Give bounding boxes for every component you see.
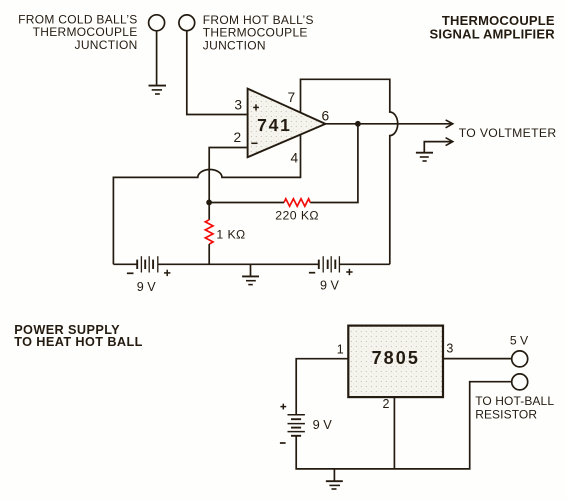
battery B1 plus sign: [164, 270, 170, 276]
op-amp U1 741: [248, 89, 326, 158]
svg-text:9 V: 9 V: [137, 280, 157, 294]
wire pin 2 down to ground rail: [393, 397, 395, 469]
node: feedback junction dot: [206, 200, 212, 206]
svg-text:3: 3: [446, 342, 453, 356]
wire 220K left lead to feedback node: [209, 202, 284, 204]
svg-text:9 V: 9 V: [320, 279, 340, 293]
svg-text:RESISTOR: RESISTOR: [475, 408, 537, 422]
terminal J1 (cold ball input): [149, 15, 165, 31]
svg-text:220 KΩ: 220 KΩ: [275, 208, 319, 222]
ground (battery rail): [242, 264, 259, 284]
title: THERMOCOUPLE SIGNAL AMPLIFIER: [430, 13, 556, 41]
wire pin 7 to V+ rail, hops over output wire, down to battery rail: [301, 79, 398, 264]
wire pin 1 to battery B3 plus: [296, 359, 348, 415]
wire battery rail center segment: [158, 263, 319, 265]
battery B2 9V (right): [319, 256, 340, 272]
battery B3 9V (vertical): [288, 415, 305, 436]
terminal J3 (5V output): [512, 351, 528, 367]
svg-text:TO HOT-BALL: TO HOT-BALL: [475, 394, 554, 408]
label: TO HOT-BALL RESISTOR: [475, 394, 554, 422]
svg-text:6: 6: [321, 108, 329, 123]
svg-text:5 V: 5 V: [510, 334, 529, 348]
svg-text:741: 741: [257, 115, 292, 135]
wire voltmeter return lead: [424, 142, 452, 153]
terminal J2 (hot ball input): [179, 15, 195, 31]
op-amp plus input marking: [253, 104, 259, 110]
wire output junction down to feedback resistor: [310, 124, 358, 203]
ground (cold-ball junction): [149, 86, 167, 94]
wire pin 4 down, left (hops over pin-2 wire), down to left battery minus: [113, 135, 300, 265]
svg-text:TO HEAT HOT BALL: TO HEAT HOT BALL: [14, 335, 143, 349]
wire battery rail right segment to V+ drop: [339, 263, 389, 265]
op-amp minus input marking: [251, 142, 257, 144]
svg-text:4: 4: [291, 151, 299, 166]
resistor R1 220 K-ohm (zigzag): [284, 199, 310, 207]
ground (power supply): [326, 469, 343, 489]
label: FROM HOT BALL'S THERMOCOUPLE JUNCTION: [203, 13, 314, 52]
svg-text:SIGNAL AMPLIFIER: SIGNAL AMPLIFIER: [430, 26, 556, 41]
svg-text:JUNCTION: JUNCTION: [75, 38, 138, 52]
wire battery rail left segment: [113, 263, 136, 265]
wire pin 2 to feedback node: [209, 148, 247, 203]
resistor R2 1 K-ohm (vertical zigzag): [205, 220, 213, 244]
arrowhead to voltmeter (signal): [446, 120, 453, 128]
terminal J4 (to hot-ball resistor): [512, 374, 528, 390]
battery B2 minus sign: [309, 272, 315, 274]
svg-text:3: 3: [234, 97, 242, 112]
node: output junction: [355, 121, 361, 127]
svg-text:7: 7: [288, 90, 296, 105]
wire battery B3 minus to ground rail, right and up to hot-ball terminal: [296, 382, 512, 469]
svg-text:9 V: 9 V: [313, 417, 333, 432]
ground (voltmeter return): [416, 153, 433, 161]
svg-text:1 KΩ: 1 KΩ: [216, 227, 245, 241]
wire feedback node down to R2: [208, 203, 210, 220]
label: FROM COLD BALL'S THERMOCOUPLE JUNCTION: [18, 12, 138, 52]
wire R2 bottom lead to battery rail: [208, 244, 210, 264]
regulator U2 7805 box: [348, 326, 443, 398]
battery B1 9V (left): [137, 256, 158, 272]
wire pin 3 to 5V terminal: [443, 358, 512, 360]
svg-text:7805: 7805: [372, 348, 420, 368]
svg-text:JUNCTION: JUNCTION: [203, 38, 266, 52]
battery B1 minus sign: [127, 272, 134, 274]
svg-text:1: 1: [337, 343, 344, 357]
wire J2 to op-amp pin 3: [187, 31, 247, 115]
svg-text:TO VOLTMETER: TO VOLTMETER: [459, 126, 557, 140]
arrowhead to voltmeter (return): [446, 138, 453, 146]
wire J1 to ground: [156, 31, 158, 85]
label: POWER SUPPLY TO HEAT HOT BALL: [14, 323, 143, 349]
svg-text:2: 2: [233, 130, 241, 145]
battery B3 plus sign: [280, 404, 286, 410]
battery B3 minus sign: [280, 442, 286, 444]
battery B2 plus sign: [346, 269, 352, 275]
wire op-amp output pin 6 to voltmeter arrow: [325, 123, 452, 125]
svg-text:2: 2: [383, 397, 390, 411]
